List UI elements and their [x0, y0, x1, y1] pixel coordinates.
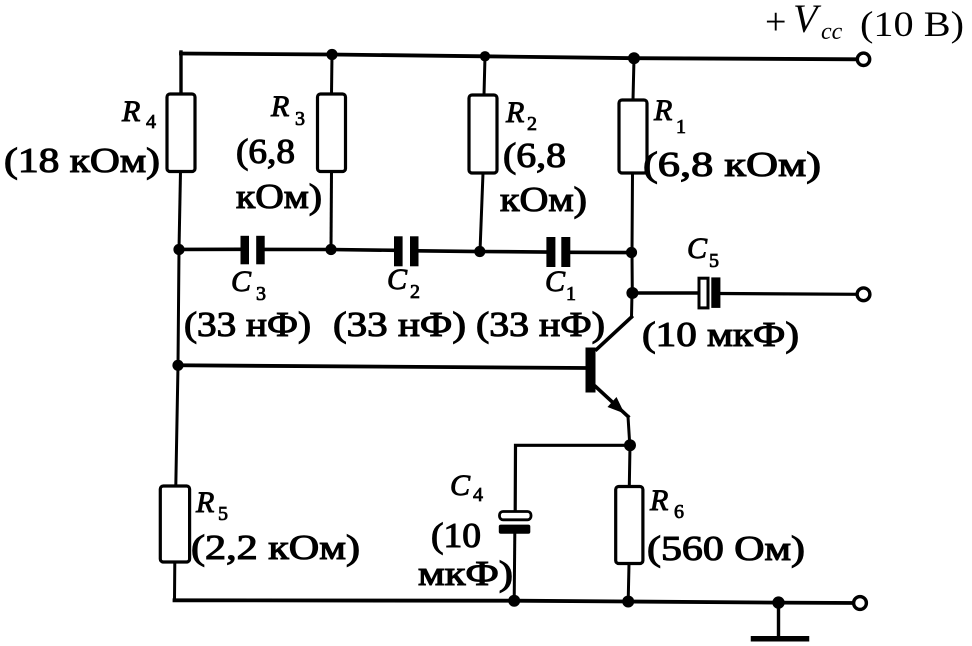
wire emitter to C4 [515, 445, 630, 511]
svg-text:R: R [270, 90, 289, 123]
wire R2 top lead [484, 56, 485, 95]
svg-text:(33 нФ): (33 нФ) [476, 305, 605, 344]
svg-text:R: R [121, 95, 140, 128]
capacitor C2 [333, 236, 466, 344]
svg-text:2: 2 [527, 113, 537, 135]
wire R3 top lead [330, 55, 334, 95]
svg-text:R: R [653, 94, 672, 127]
wire collector column [631, 253, 634, 294]
svg-text:C: C [450, 469, 471, 502]
svg-text:(6,8: (6,8 [503, 136, 566, 175]
wire cap row segment 1 [179, 248, 241, 252]
ground [754, 636, 807, 642]
wire cap row segment 6 [570, 251, 632, 255]
svg-text:C: C [231, 265, 252, 298]
node D R1/C1 junction [626, 247, 637, 258]
svg-text:cc: cc [821, 19, 843, 45]
svg-text:3: 3 [295, 108, 305, 130]
wire cap row segment 3 [331, 248, 395, 252]
wire C5 lead right [720, 292, 858, 296]
svg-text:R: R [195, 486, 214, 519]
svg-text:кОм): кОм) [236, 177, 322, 216]
wire base [178, 365, 586, 368]
wire cap row segment 4 [419, 249, 480, 253]
terminal +Vcc [857, 53, 869, 65]
svg-text:3: 3 [256, 283, 266, 305]
svg-text:4: 4 [146, 111, 156, 133]
node A R4/C3 junction [173, 244, 184, 255]
transistor Q1 [586, 293, 633, 417]
wire R5 bottom lead [173, 562, 176, 600]
node top R3 [326, 49, 337, 60]
svg-text:2: 2 [410, 281, 420, 303]
wire bottom rail [175, 600, 859, 603]
wire R4 top lead [179, 52, 182, 94]
resistor R1 [619, 94, 821, 184]
node C R2/C2/C1 junction [474, 246, 485, 257]
svg-text:(2,2 кОм): (2,2 кОм) [191, 528, 360, 567]
svg-text:1: 1 [676, 116, 686, 138]
svg-text:C: C [545, 265, 566, 298]
svg-text:5: 5 [218, 503, 228, 525]
svg-text:(6,8 кОм): (6,8 кОм) [643, 145, 821, 184]
svg-text:C: C [387, 263, 408, 296]
capacitor C4 [418, 469, 531, 593]
node G emitter junction [624, 439, 636, 451]
wire ground stem [777, 603, 780, 637]
wire R6 top lead [628, 445, 632, 486]
svg-text:(33 нФ): (33 нФ) [333, 305, 466, 344]
capacitor C3 [184, 236, 311, 344]
wire cap row segment 2 [265, 248, 332, 252]
wire R1 bottom lead [631, 173, 635, 253]
wire emitter lead [628, 417, 630, 446]
svg-text:4: 4 [473, 484, 483, 506]
node E collector/C5 junction [626, 287, 638, 299]
capacitor C1 [476, 237, 605, 344]
wire C5 lead left [632, 291, 699, 295]
wire R4 bottom lead [179, 172, 181, 250]
svg-text:+: + [765, 1, 786, 43]
net +Vcc label [765, 0, 964, 45]
capacitor C5 [642, 232, 799, 354]
wire left column R4 to R5 [176, 250, 179, 487]
node F base junction [172, 360, 183, 371]
svg-text:(10: (10 [431, 516, 481, 555]
svg-text:5: 5 [709, 250, 719, 272]
svg-text:(18 кОм): (18 кОм) [4, 141, 160, 180]
node J ground symbol junction [772, 596, 784, 608]
svg-text:R: R [505, 96, 524, 129]
node top R2 [480, 51, 490, 61]
resistor R2 [469, 95, 587, 219]
svg-text:1: 1 [566, 283, 576, 305]
wire cap row segment 5 [480, 250, 547, 254]
node B R3/C3/C2 junction [325, 244, 336, 255]
wire C4 bottom lead [513, 534, 517, 601]
resistor R5 [160, 486, 360, 567]
svg-text:(10 В): (10 В) [860, 4, 964, 44]
svg-text:кОм): кОм) [500, 180, 587, 219]
svg-text:R: R [649, 484, 668, 517]
resistor R4 [4, 94, 195, 180]
wire R3 bottom lead [330, 172, 334, 250]
svg-text:C: C [687, 232, 708, 265]
terminal ground [854, 597, 867, 610]
svg-text:мкФ): мкФ) [418, 554, 513, 593]
wire R2 bottom lead [480, 173, 483, 252]
terminal output [857, 288, 870, 301]
svg-text:(33 нФ): (33 нФ) [184, 305, 311, 344]
svg-text:(6,8: (6,8 [236, 132, 295, 171]
node H C4/ground rail junction [508, 595, 520, 607]
svg-text:(560 Ом): (560 Ом) [647, 529, 805, 568]
resistor R6 [616, 484, 805, 568]
wire R1 top lead [633, 58, 634, 100]
resistor R3 [236, 90, 346, 216]
node top R1 [628, 52, 640, 64]
wire R6 bottom lead [627, 564, 631, 602]
svg-text:(10 мкФ): (10 мкФ) [642, 315, 799, 354]
node I R6/ground rail junction [622, 596, 634, 608]
wire top rail [181, 54, 858, 60]
svg-text:6: 6 [674, 501, 684, 523]
